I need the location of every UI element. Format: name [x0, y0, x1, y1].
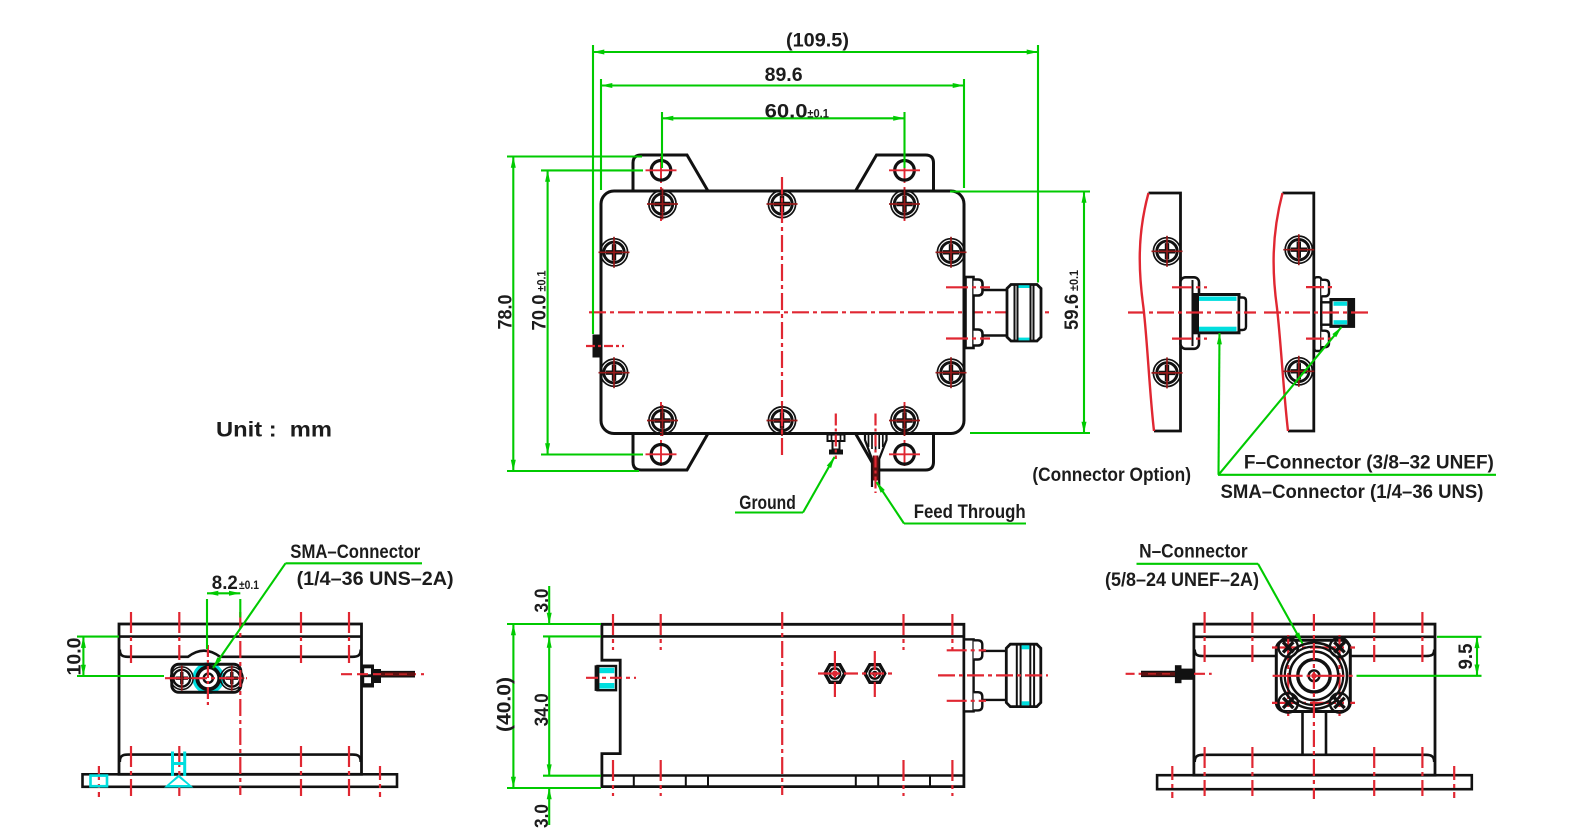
tab hole top-left — [646, 161, 677, 181]
dim (40.0) — [512, 624, 514, 788]
N connector circles — [1281, 643, 1347, 709]
svg-text:10.0: 10.0 — [64, 637, 86, 675]
plate 1 screw top — [1152, 236, 1183, 267]
leader N-Connector — [1137, 563, 1259, 565]
tab hole bottom-right — [889, 445, 920, 465]
svg-text:78.0: 78.0 — [495, 294, 517, 329]
dim 70.0 — [547, 170, 549, 454]
right side pin connector — [362, 665, 375, 688]
svg-text:N–Connector: N–Connector — [1139, 540, 1248, 562]
red ticks bottom band — [130, 746, 132, 796]
dim 3.0 bottom — [548, 788, 550, 825]
dim 10.0 — [82, 637, 84, 676]
svg-text:±0.1: ±0.1 — [1069, 269, 1081, 291]
cyan ground symbol — [173, 752, 185, 777]
svg-text:F–Connector (3/8–32 UNEF): F–Connector (3/8–32 UNEF) — [1244, 451, 1494, 473]
svg-text:SMA–Connector: SMA–Connector — [290, 541, 420, 563]
lower face line — [120, 755, 361, 762]
hex stud right — [865, 665, 885, 683]
N connector flange bar (top view) — [966, 277, 974, 348]
option 2 centerline — [1264, 311, 1369, 313]
SMA horizontal centerline — [165, 677, 247, 679]
N connector side (middle view) — [964, 639, 974, 711]
leader feed through — [904, 522, 1026, 524]
lid joint line — [119, 635, 362, 638]
bottom-right dims — [1137, 564, 1482, 676]
svg-text:3.0: 3.0 — [531, 804, 553, 828]
F-connector body — [1194, 295, 1239, 333]
bottom-middle dims — [507, 586, 601, 825]
lid screw B2 — [936, 237, 967, 268]
svg-text:(40.0): (40.0) — [494, 677, 516, 732]
option 1 centerline — [1128, 311, 1256, 313]
N flange screws — [1279, 638, 1350, 713]
SMA option flange bar — [1314, 277, 1321, 351]
tab centerlines — [661, 157, 905, 467]
mounting tab top-right — [856, 155, 934, 191]
plate 2 screw top — [1283, 234, 1314, 265]
dim 8.2 — [207, 592, 240, 594]
body outline with step — [602, 624, 964, 786]
side SMA mark on left edge — [593, 335, 603, 358]
SMA option mid step — [1321, 302, 1331, 324]
upper face line with bump — [120, 650, 361, 657]
cyan marker rect — [91, 776, 108, 787]
tab hole bottom-left — [646, 445, 677, 465]
svg-text:(109.5): (109.5) — [786, 29, 849, 51]
SMA vertical centerline — [207, 645, 209, 706]
svg-text:(1/4–36 UNS–2A): (1/4–36 UNS–2A) — [297, 568, 454, 590]
base plate — [1157, 775, 1472, 789]
svg-text:8.2: 8.2 — [212, 572, 238, 594]
SMA center conductor — [197, 667, 219, 689]
dim 34.0 — [548, 636, 550, 775]
N connector body lines — [983, 289, 1009, 292]
lower face line — [1195, 755, 1435, 762]
body outline — [1194, 624, 1435, 775]
dim 59.6 — [1083, 192, 1085, 434]
svg-text:SMA–Connector (1/4–36 UNS): SMA–Connector (1/4–36 UNS) — [1221, 481, 1484, 503]
svg-text:Unit : mm: Unit : mm — [216, 419, 332, 442]
lid screw D3 — [889, 405, 920, 436]
option plate 1 outline — [1149, 193, 1181, 431]
SMA option bottom boss — [1321, 331, 1329, 348]
left pin connector — [1175, 665, 1182, 683]
svg-text:9.5: 9.5 — [1455, 643, 1477, 669]
leader SMA-Connector — [286, 562, 423, 564]
dim 9.5 — [1476, 637, 1478, 676]
center axis — [239, 612, 241, 795]
dim text 70.0 (rotated) — [529, 270, 551, 331]
lid screw C2 — [936, 357, 967, 388]
option plate 2 outline — [1283, 193, 1314, 431]
left SMA jack (cyan) — [598, 666, 617, 690]
leader ground — [735, 511, 803, 513]
lid screw D2 — [767, 405, 798, 436]
tab hole top-right — [889, 161, 920, 181]
dim text 59.6 (rotated) — [1061, 269, 1083, 330]
svg-text:±0.1: ±0.1 — [239, 580, 260, 592]
dim 60.0 — [662, 117, 905, 119]
N flange screw grid centerlines — [1272, 635, 1355, 716]
lid screw A2 — [767, 189, 798, 220]
N connector coupling nut — [1007, 285, 1041, 342]
SMA jack cyan insulator — [194, 664, 222, 692]
svg-text:34.0: 34.0 — [531, 693, 553, 726]
svg-text:3.0: 3.0 — [531, 588, 553, 612]
svg-text:(Connector Option): (Connector Option) — [1032, 464, 1191, 486]
N flange — [1276, 640, 1350, 711]
hex stud left — [825, 665, 845, 683]
F-connector end cap — [1239, 298, 1246, 331]
N connector bottom boss — [974, 330, 983, 346]
N connector top boss — [974, 280, 983, 296]
center axis — [781, 612, 783, 795]
plate 2 screw bottom — [1283, 356, 1314, 387]
SMA flange screw right — [219, 666, 244, 691]
N connector crosshair — [1273, 675, 1357, 677]
stem below flange — [1301, 712, 1304, 755]
svg-text:60.0: 60.0 — [765, 100, 808, 122]
svg-text:±0.1: ±0.1 — [537, 270, 549, 292]
bottom-left dims — [77, 563, 422, 676]
feed through funnel — [865, 434, 872, 488]
red ticks top band — [130, 612, 132, 663]
svg-text:70.0: 70.0 — [529, 294, 551, 330]
lid screw B1 — [599, 237, 630, 268]
lid screw A1 — [647, 189, 678, 220]
dim 3.0 top — [548, 586, 550, 624]
red ticks base — [98, 766, 100, 797]
option plate 2 break line — [1274, 193, 1288, 431]
lid screw A3 — [889, 189, 920, 220]
upper face line — [1195, 650, 1435, 657]
SMA flange — [172, 664, 241, 692]
dim 89.6 — [601, 84, 964, 86]
base division ticks — [634, 776, 930, 787]
svg-text:Ground: Ground — [739, 492, 796, 514]
F-connector flange — [1181, 277, 1200, 349]
lid screw D1 — [647, 405, 678, 436]
lid joint line — [602, 635, 964, 638]
lid joint line — [1194, 635, 1435, 638]
mounting tab bottom-right — [856, 434, 934, 471]
SMA option top boss — [1321, 280, 1329, 297]
body outline — [119, 624, 362, 774]
red ticks — [1205, 612, 1423, 796]
dim 78.0 — [512, 157, 514, 472]
horizontal centerline — [589, 311, 1049, 313]
SMA flange screw left — [169, 666, 194, 691]
base plate — [83, 774, 398, 787]
enclosure body (plan) — [601, 191, 964, 434]
svg-text:89.6: 89.6 — [765, 64, 803, 86]
option plate 1 break line — [1140, 193, 1154, 431]
svg-text:±0.1: ±0.1 — [807, 108, 829, 120]
center axis — [1313, 614, 1315, 799]
svg-text:(5/8–24 UNEF–2A): (5/8–24 UNEF–2A) — [1105, 569, 1259, 591]
option labels leaders — [1218, 327, 1496, 475]
lid screw C1 — [599, 357, 630, 388]
vertical centerline — [781, 177, 783, 459]
dim (109.5) — [593, 51, 1038, 53]
ground pin — [828, 435, 845, 442]
base joint line — [602, 774, 964, 777]
red ticks — [613, 614, 952, 796]
N connector boss centerlines — [946, 286, 990, 288]
svg-text:Feed Through: Feed Through — [914, 501, 1026, 523]
mounting tab bottom-left — [633, 434, 708, 471]
plate 1 screw bottom — [1152, 357, 1183, 388]
svg-text:59.6: 59.6 — [1061, 294, 1083, 330]
mounting tab top-left — [633, 155, 708, 191]
SMA option nut — [1331, 300, 1354, 327]
